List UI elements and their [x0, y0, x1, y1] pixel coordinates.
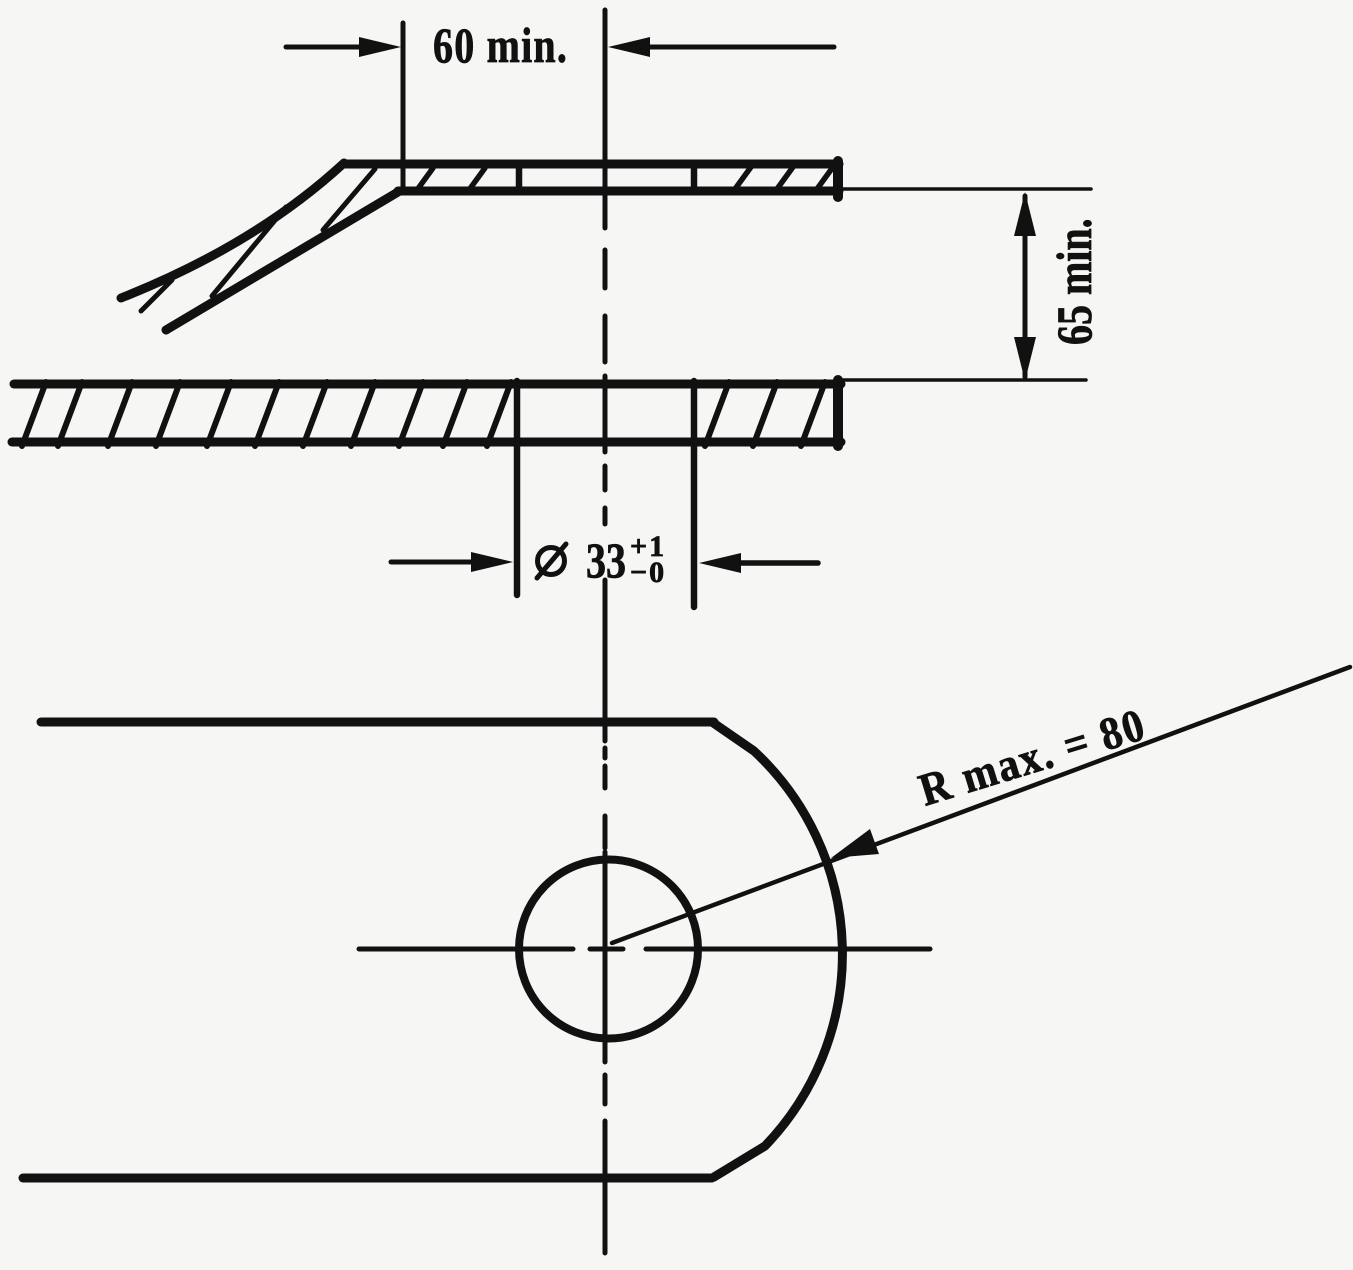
- lower plate top edge: [14, 380, 841, 389]
- svg-text:−0: −0: [630, 556, 666, 589]
- upper plate top edge: [344, 160, 839, 169]
- lower plate right end cap: [833, 380, 843, 446]
- dimension 65 min. top arrowhead: [1014, 192, 1036, 236]
- bent arm bottom outline: [166, 192, 398, 330]
- svg-text:33: 33: [586, 533, 626, 588]
- lower plate hatching left: [22, 382, 511, 446]
- upper plate hole left edge: [516, 164, 523, 191]
- dimension 60 min. left line: [286, 45, 368, 50]
- svg-text:60 min.: 60 min.: [433, 18, 568, 73]
- lower plate hatching right: [705, 382, 825, 446]
- dimension 60 min. left arrowhead: [359, 37, 401, 57]
- upper plate hatching right: [735, 167, 833, 189]
- upper plate hole right edge: [691, 164, 698, 191]
- hole horizontal centerline: [359, 947, 930, 952]
- radius leader line: [612, 667, 1350, 943]
- svg-text:65 min.: 65 min.: [1047, 218, 1102, 345]
- extension line for 65 min. (top): [842, 187, 1091, 191]
- extension line at x=403: [401, 23, 406, 191]
- upper plate hatching left: [417, 168, 485, 190]
- dimension 65 min. vertical line: [1023, 196, 1028, 377]
- lower plate bottom edge: [12, 438, 841, 447]
- dimension 60 min. right line: [642, 45, 834, 50]
- extension line for 65 min. (bottom): [842, 378, 1086, 382]
- plan view top edge: [41, 718, 714, 727]
- bent arm hatch at tip: [141, 280, 172, 311]
- upper plate right end cap: [833, 161, 843, 197]
- bent arm top outline: [121, 163, 344, 298]
- centerline vertical (section + plan axis): [603, 10, 608, 1253]
- hole circle: [519, 860, 698, 1039]
- dimension dia 33 right arrowhead: [699, 553, 741, 573]
- diameter symbol: [538, 548, 565, 575]
- lower plate hole left edge + extension down: [514, 381, 521, 595]
- svg-text:R max. = 80: R max. = 80: [913, 698, 1152, 815]
- dimension 60 min. right arrowhead: [608, 37, 650, 57]
- lower plate hole right edge + extension down: [691, 381, 698, 607]
- bent arm hatch middle: [212, 207, 286, 296]
- radius leader arrowhead: [831, 829, 879, 858]
- dimension dia 33 right line: [735, 560, 818, 566]
- dimension dia 33 left arrowhead: [471, 552, 513, 572]
- plan view bottom edge: [23, 1174, 712, 1183]
- upper plate bottom edge: [398, 187, 839, 196]
- dimension dia 33 left line: [391, 560, 478, 565]
- dimension 65 min. bottom arrowhead: [1014, 337, 1036, 381]
- bent arm hatch upper: [323, 169, 375, 230]
- plan view rounded end (chamfer + arc + chamfer): [712, 722, 842, 1177]
